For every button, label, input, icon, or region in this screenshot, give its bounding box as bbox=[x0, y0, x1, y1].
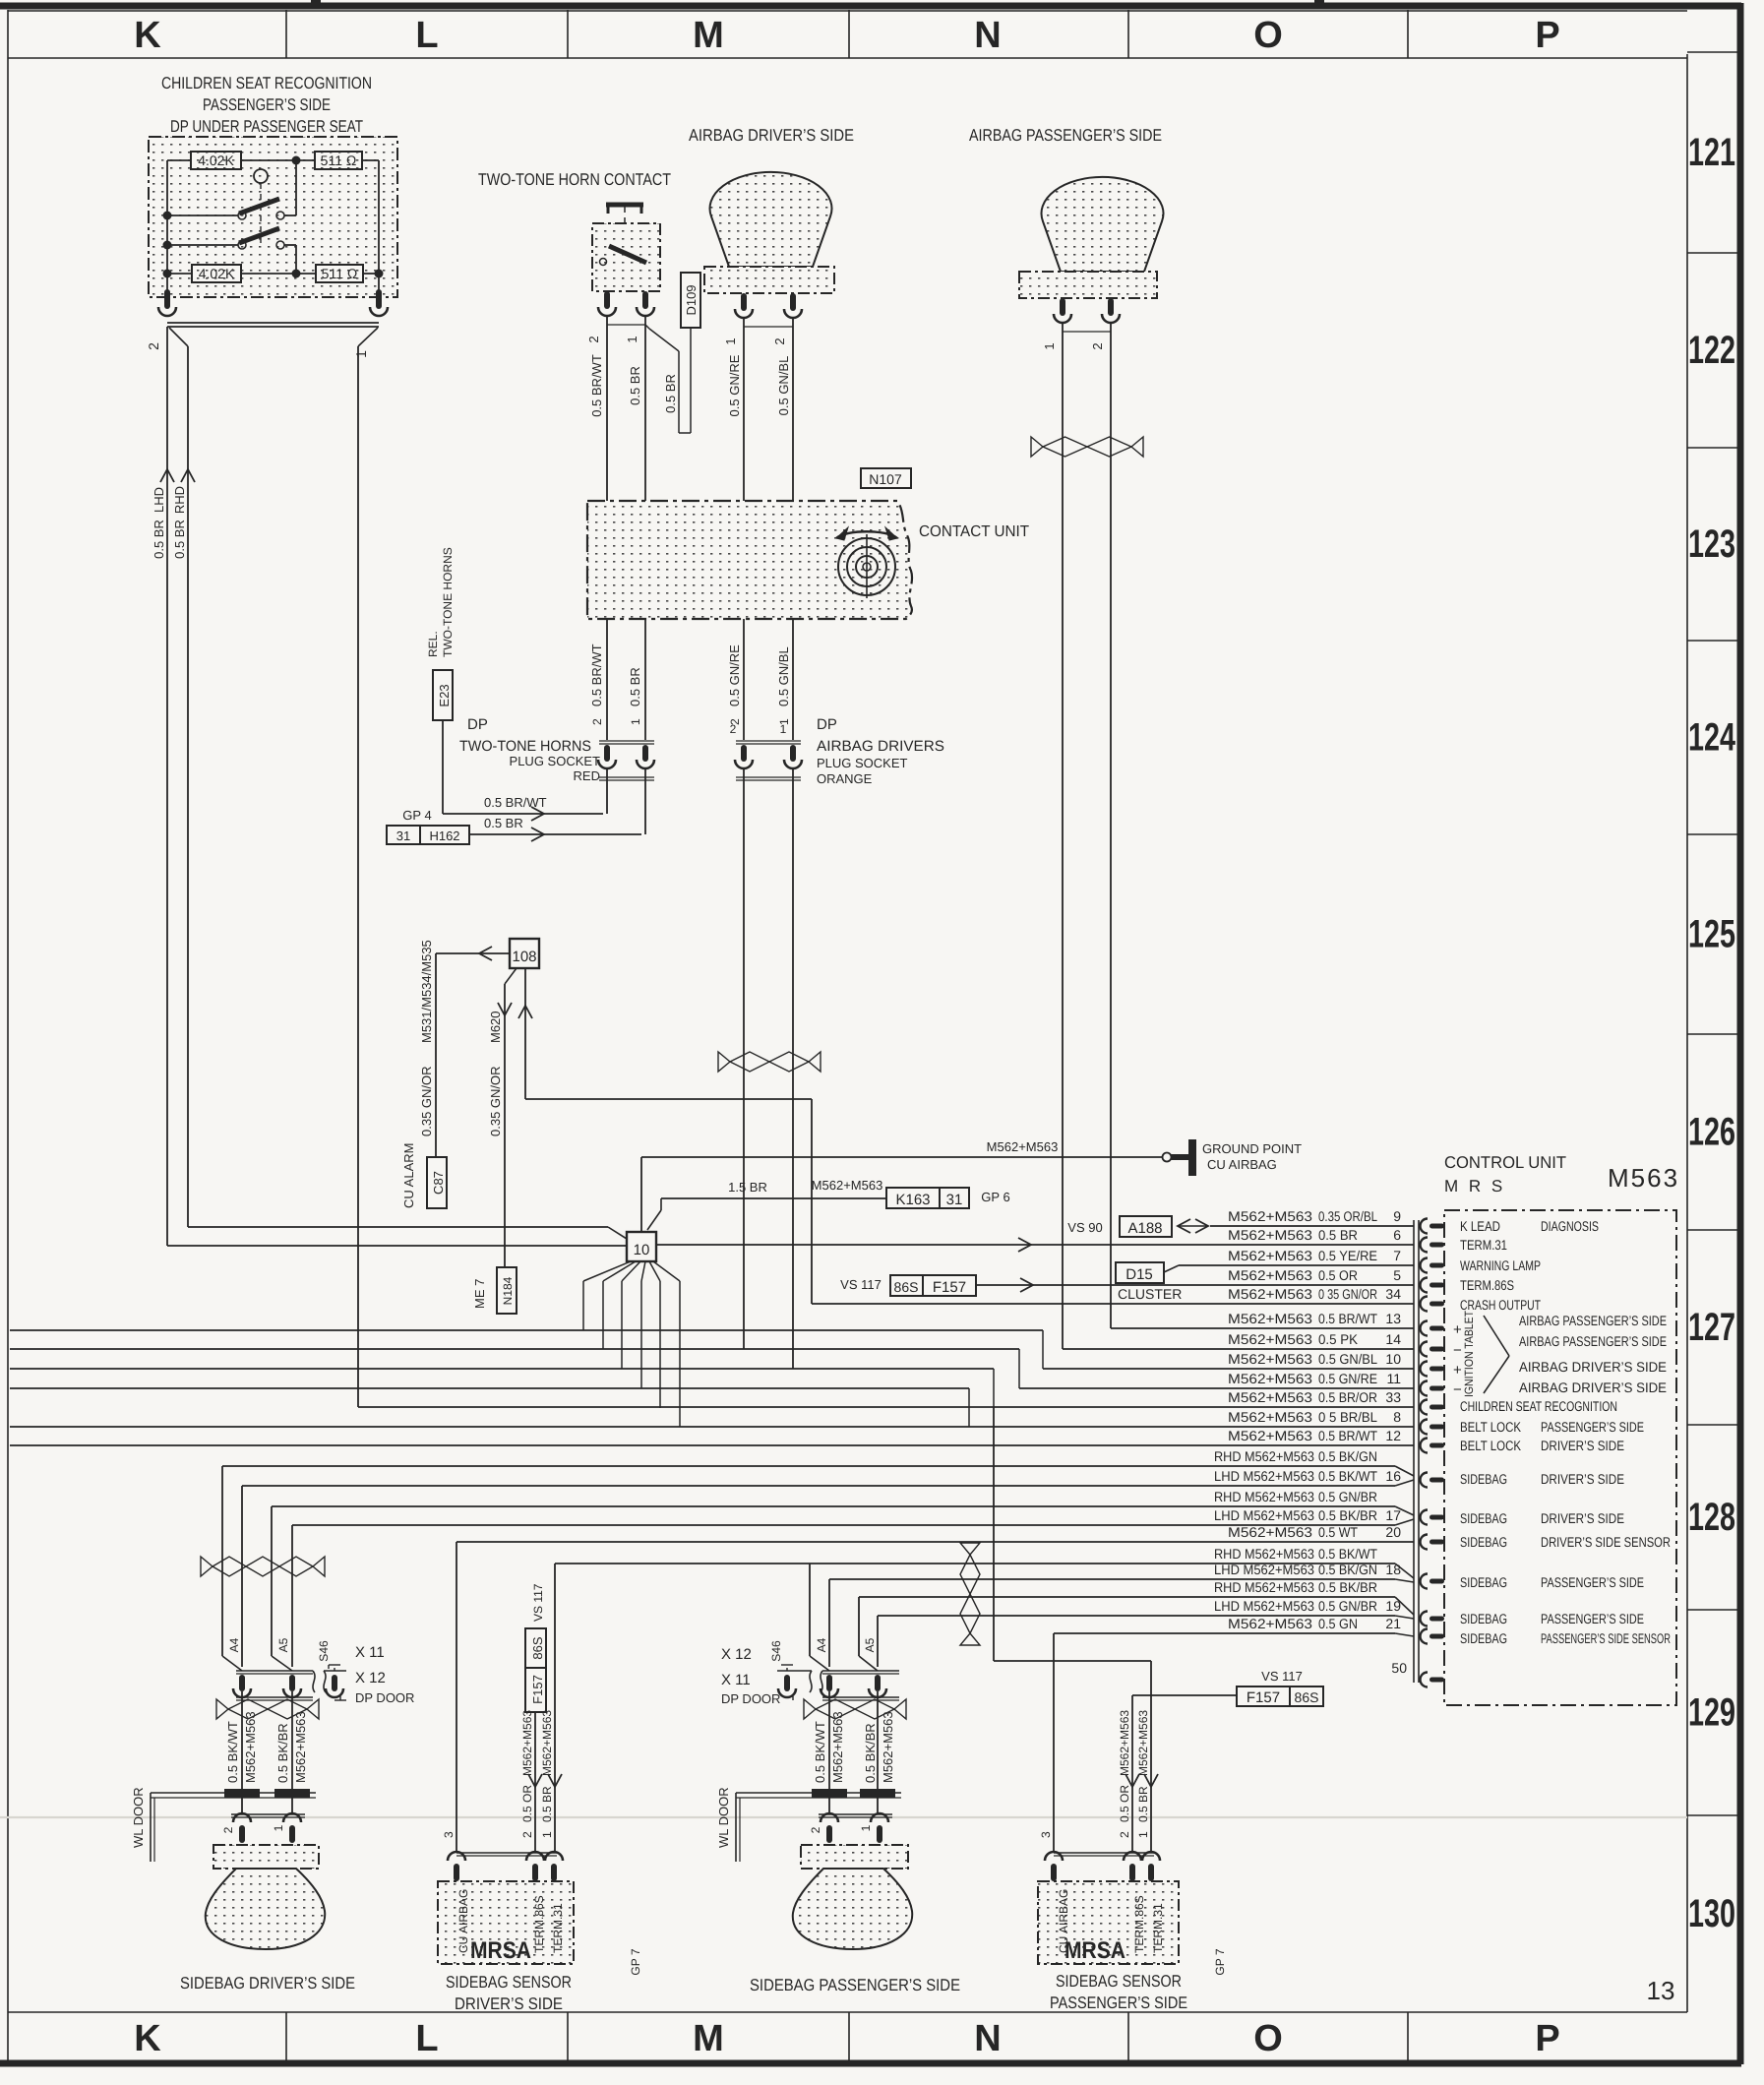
junction 108 box bbox=[510, 939, 539, 968]
wire mrsa pass br feed bbox=[994, 1407, 1158, 1853]
svg-text:LHD M562+M563: LHD M562+M563 bbox=[1214, 1562, 1314, 1577]
svg-text:0.5 GN/RE: 0.5 GN/RE bbox=[727, 354, 742, 416]
svg-text:0.5 BK/BR: 0.5 BK/BR bbox=[275, 1723, 290, 1783]
fuse F157 86S vertical box drv bbox=[525, 1628, 546, 1712]
plug sheath line airbag lower bbox=[736, 777, 801, 780]
wire airbag driver 1 lower bbox=[743, 767, 745, 1349]
wire row 18 LHD bbox=[829, 1579, 1414, 1582]
svg-text:3: 3 bbox=[442, 1831, 456, 1838]
mrsa pass pin 2 bbox=[1124, 1852, 1141, 1881]
svg-text:CHILDREN SEAT RECOGNITION: CHILDREN SEAT RECOGNITION bbox=[1460, 1398, 1617, 1414]
svg-text:PASSENGER’S SIDE: PASSENGER’S SIDE bbox=[1541, 1419, 1644, 1435]
label 0.5 BK/WT drv bbox=[225, 1721, 240, 1783]
svg-text:2: 2 bbox=[772, 337, 787, 344]
wire row pin9 diagnosis bbox=[1210, 1208, 1414, 1226]
airbag driver dome bbox=[710, 172, 832, 267]
wire sidebag pass A4 lhd bbox=[828, 1579, 830, 1667]
label 2 top bbox=[586, 336, 601, 342]
svg-text:0.5 BR: 0.5 BR bbox=[152, 520, 166, 559]
svg-text:RHD M562+M563: RHD M562+M563 bbox=[1214, 1448, 1314, 1464]
svg-text:12: 12 bbox=[1385, 1428, 1401, 1443]
label S46 pass bbox=[769, 1640, 783, 1662]
label VS 117 f157 bbox=[840, 1277, 882, 1292]
svg-text:9: 9 bbox=[1393, 1208, 1401, 1224]
wire row pin5 term86s bbox=[976, 1267, 1414, 1292]
wire row 16 RHD bbox=[222, 1466, 1414, 1476]
airbag plug pin 2 bbox=[735, 745, 753, 768]
fuse F157 86S box pass bbox=[1237, 1686, 1323, 1706]
wire airbag passenger 1 bbox=[1062, 322, 1064, 1349]
wire f157 to mrsa drv pin2 bbox=[528, 1711, 542, 1853]
svg-text:N: N bbox=[974, 15, 1001, 56]
switch S2 lower bbox=[238, 228, 284, 249]
svg-text:M562+M563: M562+M563 bbox=[1228, 1524, 1312, 1540]
wire row 17 RHD bbox=[272, 1506, 1414, 1515]
svg-text:M562+M563: M562+M563 bbox=[1228, 1389, 1312, 1405]
wire row 19 RHD bbox=[859, 1597, 1414, 1615]
svg-text:AIRBAG DRIVER’S SIDE: AIRBAG DRIVER’S SIDE bbox=[689, 126, 854, 145]
svg-text:0.5 BR/WT: 0.5 BR/WT bbox=[484, 795, 547, 810]
double arrow A188 bbox=[1178, 1219, 1208, 1233]
svg-text:C87: C87 bbox=[431, 1171, 446, 1195]
svg-text:0.5 BK/WT: 0.5 BK/WT bbox=[1318, 1468, 1377, 1484]
svg-text:M562+M563: M562+M563 bbox=[1228, 1351, 1312, 1367]
svg-text:K163: K163 bbox=[895, 1192, 930, 1208]
svg-text:1: 1 bbox=[1042, 342, 1057, 349]
svg-text:86S: 86S bbox=[1295, 1689, 1319, 1705]
label M562+M563 mrsa drv2 bbox=[520, 1710, 534, 1776]
connector strip children seat bbox=[167, 323, 379, 327]
svg-text:2: 2 bbox=[590, 718, 604, 725]
wire sidebag pass A4 rhd bbox=[810, 1564, 829, 1671]
label 2 airbag drv bbox=[772, 337, 787, 344]
svg-text:7: 7 bbox=[1393, 1248, 1401, 1263]
switch S1 upper bbox=[238, 199, 284, 219]
label GP 6 bbox=[981, 1190, 1009, 1204]
wire E23 to plug bbox=[443, 720, 603, 821]
svg-text:PLUG SOCKET: PLUG SOCKET bbox=[817, 756, 908, 770]
designator N107 box bbox=[861, 468, 911, 488]
label X11 X12 DP DOOR drv bbox=[355, 1644, 414, 1705]
svg-text:A188: A188 bbox=[1127, 1220, 1162, 1237]
svg-text:8: 8 bbox=[1393, 1409, 1401, 1425]
label CU ALARM bbox=[401, 1143, 416, 1208]
label RHD bbox=[172, 486, 187, 514]
connector strip mrsa pass bbox=[1054, 1853, 1154, 1856]
label WL DOOR drv bbox=[131, 1787, 146, 1848]
svg-text:0.5 BR: 0.5 BR bbox=[663, 374, 678, 413]
svg-text:BELT LOCK: BELT LOCK bbox=[1460, 1438, 1522, 1453]
pin label 1 bbox=[353, 350, 369, 358]
svg-text:CU AIRBAG: CU AIRBAG bbox=[456, 1889, 470, 1953]
svg-text:17: 17 bbox=[1385, 1507, 1401, 1523]
relay label REL TWO-TONE HORNS bbox=[426, 547, 455, 657]
label 1 airbag pass bbox=[1042, 342, 1057, 349]
svg-text:E23: E23 bbox=[437, 684, 452, 706]
svg-text:−: − bbox=[1453, 1342, 1462, 1359]
label M562+M563 drv a5 bbox=[293, 1711, 308, 1783]
label M562+M563 mrsa pass1 bbox=[1136, 1710, 1150, 1776]
children seat recognition title bbox=[161, 74, 372, 136]
sidebag pass pin 1 bbox=[871, 1813, 888, 1843]
svg-text:11: 11 bbox=[1386, 1371, 1401, 1386]
svg-text:0.5 BR: 0.5 BR bbox=[628, 667, 642, 706]
wire rows to junction 10 with jogs bbox=[10, 1330, 1414, 1427]
label 0.5 GN/BL bbox=[776, 356, 791, 416]
svg-text:4.02K: 4.02K bbox=[199, 266, 235, 281]
svg-text:DP UNDER PASSENGER SEAT: DP UNDER PASSENGER SEAT bbox=[170, 117, 363, 136]
children seat recognition unit S?? dotted box bbox=[149, 137, 397, 297]
svg-text:126: 126 bbox=[1688, 1111, 1735, 1154]
ground connector 31 H162 box bbox=[387, 826, 469, 844]
svg-text:0.5 BR: 0.5 BR bbox=[628, 366, 642, 405]
svg-text:0.5 BR: 0.5 BR bbox=[484, 816, 523, 830]
sidebag driver dome bbox=[206, 1869, 325, 1949]
wire airbag driver 1 upper bbox=[743, 317, 745, 740]
svg-text:L: L bbox=[415, 2018, 438, 2059]
label 0.5 GN/RE bbox=[727, 354, 742, 416]
label 2 mid airbag bbox=[728, 718, 742, 725]
wire sidebag drv A4 rhd bbox=[222, 1466, 242, 1671]
resistor 4.02K lower bbox=[192, 265, 241, 282]
label VS 90 bbox=[1067, 1220, 1102, 1235]
svg-text:M: M bbox=[693, 2018, 724, 2059]
svg-text:0.5 GN/BR: 0.5 GN/BR bbox=[1318, 1598, 1377, 1614]
wire switch2 right bbox=[284, 245, 296, 274]
wire airbag driver 2 lower bbox=[792, 767, 794, 1369]
resistor 511 ohm lower bbox=[316, 265, 363, 282]
label 2 mrsa pass bbox=[1118, 1831, 1131, 1838]
svg-text:0 35 GN/OR: 0 35 GN/OR bbox=[1318, 1286, 1377, 1302]
label 0.5 BK/BR drv bbox=[275, 1723, 290, 1783]
wire H162 to plug bbox=[469, 828, 641, 841]
svg-text:A4: A4 bbox=[815, 1637, 828, 1652]
svg-text:S46: S46 bbox=[769, 1640, 783, 1662]
label 0.5 BR top bbox=[628, 366, 642, 405]
horn pin 2 socket bbox=[598, 291, 616, 316]
svg-text:P: P bbox=[1535, 2018, 1559, 2059]
svg-text:0.5 YE/RE: 0.5 YE/RE bbox=[1318, 1248, 1377, 1263]
contact unit rotation arrow bbox=[836, 527, 897, 540]
label 1 sidebag drv bbox=[272, 1824, 285, 1831]
svg-text:M562+M563: M562+M563 bbox=[830, 1711, 845, 1783]
label A5 drv bbox=[276, 1637, 290, 1652]
wire top row bbox=[167, 159, 379, 161]
svg-text:CLUSTER: CLUSTER bbox=[1118, 1286, 1182, 1302]
control unit pin function labels bbox=[1460, 1218, 1671, 1646]
svg-text:2: 2 bbox=[520, 1831, 534, 1838]
svg-text:F157: F157 bbox=[530, 1675, 545, 1704]
contact unit dotted box bbox=[587, 501, 912, 619]
svg-text:O: O bbox=[1253, 2018, 1283, 2059]
relay E23 box bbox=[433, 670, 453, 720]
wire horn pin2 stub bbox=[606, 767, 608, 814]
label 1 mrsa pass bbox=[1136, 1831, 1150, 1838]
svg-text:0.5 GN/RE: 0.5 GN/RE bbox=[1318, 1371, 1377, 1386]
label 0.5 BR D109 bbox=[663, 374, 678, 413]
wire sidebag pass pair lower A4 bbox=[828, 1691, 830, 1814]
svg-text:REL.: REL. bbox=[426, 631, 440, 657]
svg-text:124: 124 bbox=[1688, 716, 1736, 760]
svg-text:RHD M562+M563: RHD M562+M563 bbox=[1214, 1579, 1314, 1595]
svg-text:GP 7: GP 7 bbox=[629, 1948, 642, 1975]
svg-text:S46: S46 bbox=[317, 1640, 331, 1662]
label 0.5 OR mrsa drv bbox=[520, 1785, 534, 1822]
svg-text:0.5 BK/WT: 0.5 BK/WT bbox=[813, 1721, 827, 1783]
svg-text:VS 90: VS 90 bbox=[1067, 1220, 1102, 1235]
svg-text:F157: F157 bbox=[1247, 1689, 1280, 1706]
svg-text:TWO-TONE HORNS: TWO-TONE HORNS bbox=[441, 547, 455, 657]
label 0.5 BR lhd bbox=[152, 520, 166, 559]
svg-text:34: 34 bbox=[1385, 1286, 1401, 1302]
svg-text:WL DOOR: WL DOOR bbox=[716, 1787, 731, 1848]
label pin 50 bbox=[1391, 1660, 1407, 1676]
wire children LHD into box10 bbox=[167, 1245, 627, 1247]
svg-text:A4: A4 bbox=[227, 1637, 241, 1652]
label 2 sidebag drv bbox=[221, 1826, 235, 1833]
svg-text:0.5 BK/WT: 0.5 BK/WT bbox=[1318, 1546, 1377, 1562]
svg-text:GROUND POINT: GROUND POINT bbox=[1202, 1141, 1302, 1156]
svg-text:1: 1 bbox=[1136, 1831, 1150, 1838]
plug sheath line airbag upper bbox=[736, 741, 801, 744]
label GP 4 bbox=[402, 808, 431, 823]
pin 1 socket children seat bbox=[370, 289, 388, 316]
svg-text:0.5 GN/BL: 0.5 GN/BL bbox=[776, 356, 791, 416]
cable sheath line airbag passenger bbox=[1063, 331, 1111, 333]
label M562+M563 pass a4 bbox=[830, 1711, 845, 1783]
mrsa drv pin 1 bbox=[545, 1852, 563, 1881]
pin 2 socket children seat bbox=[158, 289, 176, 316]
svg-text:1: 1 bbox=[625, 336, 639, 342]
svg-text:SIDEBAG: SIDEBAG bbox=[1460, 1630, 1507, 1646]
svg-text:N184: N184 bbox=[501, 1276, 515, 1305]
wire row pin14 bbox=[1063, 1348, 1414, 1350]
wire horn 2 upper bbox=[606, 315, 608, 740]
svg-text:TERM.31: TERM.31 bbox=[1460, 1237, 1507, 1253]
ignition tablet label bbox=[1462, 1310, 1476, 1397]
twisted pair symbol airbag driver bbox=[718, 1052, 821, 1072]
wire row 19 LHD bbox=[878, 1616, 1414, 1619]
svg-text:M562+M563: M562+M563 bbox=[987, 1139, 1059, 1154]
sidebag drv pin 2 bbox=[233, 1813, 251, 1843]
label 2 mid bbox=[590, 718, 604, 725]
svg-text:20: 20 bbox=[1385, 1524, 1401, 1540]
mrsa pass pin 3 bbox=[1045, 1852, 1063, 1881]
svg-text:18: 18 bbox=[1385, 1562, 1401, 1577]
svg-text:0.5 BK/BR: 0.5 BK/BR bbox=[1318, 1579, 1377, 1595]
svg-text:K: K bbox=[134, 15, 161, 56]
label 0.5 BK/BR pass bbox=[863, 1723, 878, 1783]
svg-text:DRIVER’S SIDE: DRIVER’S SIDE bbox=[1541, 1438, 1624, 1453]
svg-text:LHD M562+M563: LHD M562+M563 bbox=[1214, 1468, 1314, 1484]
sidebag sensor passenger MRSA box bbox=[1038, 1881, 1179, 1964]
label 0.35 GN/OR M620 bbox=[488, 1011, 503, 1136]
connector N184 box bbox=[497, 1267, 517, 1314]
svg-text:1: 1 bbox=[723, 337, 738, 344]
cable sheath line horn bbox=[607, 324, 645, 326]
wire row 16 LHD bbox=[242, 1480, 1414, 1486]
mrsa pass pin 1 bbox=[1142, 1852, 1160, 1881]
airbag passenger dome bbox=[1042, 177, 1164, 272]
svg-text:123: 123 bbox=[1688, 522, 1735, 566]
svg-text:SIDEBAG PASSENGER’S SIDE: SIDEBAG PASSENGER’S SIDE bbox=[750, 1976, 960, 1994]
svg-text:16: 16 bbox=[1385, 1468, 1401, 1484]
svg-text:2: 2 bbox=[586, 336, 601, 342]
label 0.5 OR mrsa pass bbox=[1118, 1785, 1131, 1822]
label 0.5 BR/WT mid bbox=[589, 644, 604, 706]
wire row 21 sensor bbox=[1054, 1633, 1414, 1636]
horn switch lever bbox=[600, 246, 647, 266]
svg-text:10: 10 bbox=[1385, 1351, 1401, 1367]
svg-text:31: 31 bbox=[946, 1192, 963, 1208]
ground point text bbox=[1202, 1141, 1302, 1172]
svg-text:0.35 GN/OR: 0.35 GN/OR bbox=[419, 1066, 434, 1136]
wire RHD 0.5 BR bbox=[169, 328, 195, 1227]
horn contact symbol T bar bbox=[606, 203, 643, 246]
svg-text:ORANGE: ORANGE bbox=[817, 771, 873, 786]
svg-text:AIRBAG PASSENGER’S SIDE: AIRBAG PASSENGER’S SIDE bbox=[1519, 1313, 1667, 1328]
svg-text:GP 7: GP 7 bbox=[1213, 1948, 1227, 1975]
svg-text:108: 108 bbox=[512, 949, 536, 965]
wire D109 branch bbox=[645, 325, 691, 433]
fuse 86S F157 box bbox=[890, 1275, 976, 1296]
door boundary WL DOOR drv bbox=[151, 1789, 316, 1862]
control unit connector bus bbox=[1414, 1220, 1419, 1683]
svg-text:CONTROL UNIT: CONTROL UNIT bbox=[1444, 1153, 1566, 1172]
wire mrsa pass pin3 bbox=[1053, 1633, 1055, 1853]
svg-text:0.5 GN/BR: 0.5 GN/BR bbox=[1318, 1489, 1377, 1504]
airbag plug pin 1 bbox=[784, 745, 802, 768]
ignition tablet bracket bbox=[1484, 1316, 1509, 1393]
twisted pair sidebag passenger lower bbox=[804, 1699, 906, 1719]
wire children RHD into box10 bbox=[188, 1227, 627, 1239]
wire ground bus M562+M563 bbox=[641, 1156, 1167, 1158]
wire row pin34 crash bbox=[812, 1286, 1414, 1304]
label A5 pass bbox=[863, 1637, 877, 1652]
svg-text:SIDEBAG SENSOR: SIDEBAG SENSOR bbox=[1056, 1972, 1182, 1991]
connector X12 strip pass bbox=[777, 1671, 899, 1692]
svg-text:PASSENGER’S SIDE: PASSENGER’S SIDE bbox=[1050, 1993, 1187, 2012]
svg-text:50: 50 bbox=[1391, 1660, 1407, 1676]
svg-text:125: 125 bbox=[1688, 913, 1735, 956]
svg-text:128: 128 bbox=[1688, 1496, 1735, 1539]
svg-text:PASSENGER’S SIDE: PASSENGER’S SIDE bbox=[203, 95, 331, 114]
label 0.5 BR rhd bbox=[172, 520, 187, 559]
twisted quad sidebag passenger vertical bbox=[960, 1543, 980, 1645]
svg-text:DP: DP bbox=[467, 716, 488, 733]
svg-text:4.02K: 4.02K bbox=[198, 153, 234, 168]
sidebag passenger dome bbox=[793, 1869, 912, 1949]
wire switch1 right bbox=[284, 164, 296, 215]
control unit M563 dashed box bbox=[1444, 1210, 1676, 1705]
svg-text:TERM.86S: TERM.86S bbox=[1460, 1277, 1514, 1293]
wire horn pin1 stub bbox=[644, 767, 646, 834]
svg-text:CRASH OUTPUT: CRASH OUTPUT bbox=[1460, 1297, 1541, 1313]
svg-text:LHD M562+M563: LHD M562+M563 bbox=[1214, 1598, 1314, 1614]
svg-text:WL DOOR: WL DOOR bbox=[131, 1787, 146, 1848]
svg-text:SIDEBAG: SIDEBAG bbox=[1460, 1534, 1507, 1550]
wire sidebag pass A5 rhd bbox=[859, 1597, 878, 1671]
svg-text:0.5 WT: 0.5 WT bbox=[1318, 1524, 1358, 1540]
svg-text:+: + bbox=[1453, 1362, 1462, 1379]
svg-text:1.5 BR: 1.5 BR bbox=[728, 1180, 767, 1195]
door boundary WL DOOR pass bbox=[736, 1789, 901, 1862]
label M562+M563 k163 bbox=[812, 1178, 883, 1193]
svg-text:1: 1 bbox=[859, 1824, 873, 1831]
svg-text:129: 129 bbox=[1688, 1691, 1735, 1735]
sidebag sensor driver title bbox=[446, 1973, 572, 2013]
twisted pair sidebag driver lower bbox=[216, 1699, 319, 1719]
sidebag driver base box bbox=[213, 1845, 319, 1869]
label 0.5 BR mrsa pass bbox=[1136, 1786, 1150, 1822]
connector C87 box bbox=[427, 1157, 447, 1208]
label M562+M563 pass a5 bbox=[881, 1711, 895, 1783]
resistor 511 ohm upper bbox=[315, 152, 362, 169]
svg-text:LHD M562+M563: LHD M562+M563 bbox=[1214, 1507, 1314, 1523]
svg-text:M562+M563: M562+M563 bbox=[293, 1711, 308, 1783]
label LHD bbox=[152, 487, 166, 513]
airbag driver base box bbox=[704, 267, 834, 293]
polarity marks ignition tablet bbox=[1453, 1321, 1462, 1398]
svg-text:21: 21 bbox=[1385, 1616, 1401, 1631]
label 0.5 BR/WT top bbox=[589, 354, 604, 417]
svg-text:GP 4: GP 4 bbox=[402, 808, 431, 823]
svg-text:DP: DP bbox=[817, 716, 837, 733]
control unit pin sockets bbox=[1421, 1219, 1445, 1687]
wire switch2 left bbox=[163, 241, 239, 250]
wire row pin12 belt lock bbox=[10, 1444, 1414, 1446]
label VS 117 pass bbox=[1261, 1669, 1303, 1684]
svg-text:CU AIRBAG: CU AIRBAG bbox=[1207, 1157, 1277, 1172]
svg-text:M562+M563: M562+M563 bbox=[1228, 1428, 1312, 1443]
wire 108 to crash output row bbox=[518, 968, 812, 1304]
svg-text:M562+M563: M562+M563 bbox=[540, 1710, 554, 1776]
connector D15 box bbox=[1116, 1262, 1164, 1283]
svg-text:3: 3 bbox=[1039, 1831, 1053, 1838]
connector A188 box bbox=[1120, 1216, 1172, 1237]
wire children pin1 to row33 bbox=[358, 328, 378, 1407]
svg-text:K LEAD: K LEAD bbox=[1460, 1218, 1500, 1234]
mrsa drv pin 2 bbox=[526, 1852, 544, 1881]
connector X11 bottom strip drv bbox=[236, 1697, 313, 1700]
label 1 mrsa drv bbox=[540, 1831, 554, 1838]
svg-text:IGNITION TABLET: IGNITION TABLET bbox=[1462, 1310, 1476, 1397]
svg-text:0.5 OR: 0.5 OR bbox=[520, 1785, 534, 1822]
svg-text:511 Ω: 511 Ω bbox=[322, 266, 358, 281]
svg-text:M562+M563: M562+M563 bbox=[812, 1178, 883, 1193]
svg-text:BELT LOCK: BELT LOCK bbox=[1460, 1419, 1522, 1435]
sidebag passenger base box bbox=[801, 1845, 908, 1869]
plug sheath line horn upper bbox=[599, 741, 654, 744]
svg-text:10: 10 bbox=[634, 1242, 650, 1258]
svg-text:CONTACT UNIT: CONTACT UNIT bbox=[919, 523, 1029, 540]
svg-text:0.35 OR/BL: 0.35 OR/BL bbox=[1318, 1208, 1377, 1224]
label CLUSTER bbox=[1118, 1286, 1182, 1302]
svg-text:M: M bbox=[693, 15, 724, 56]
label A4 drv bbox=[227, 1637, 241, 1652]
svg-text:0.5 GN/BL: 0.5 GN/BL bbox=[1318, 1351, 1377, 1367]
contact unit title bbox=[919, 523, 1029, 540]
svg-text:TERM.86S: TERM.86S bbox=[1132, 1895, 1146, 1953]
svg-text:0.5 GN: 0.5 GN bbox=[1318, 1616, 1358, 1631]
svg-text:130: 130 bbox=[1688, 1892, 1735, 1935]
svg-text:CU ALARM: CU ALARM bbox=[401, 1143, 416, 1208]
svg-text:X 11: X 11 bbox=[721, 1672, 751, 1688]
svg-text:AIRBAG DRIVERS: AIRBAG DRIVERS bbox=[817, 738, 944, 755]
svg-text:PASSENGER’S SIDE: PASSENGER’S SIDE bbox=[1541, 1574, 1644, 1590]
airbag driver pin 2 socket bbox=[784, 293, 802, 318]
svg-text:O: O bbox=[1253, 15, 1283, 56]
